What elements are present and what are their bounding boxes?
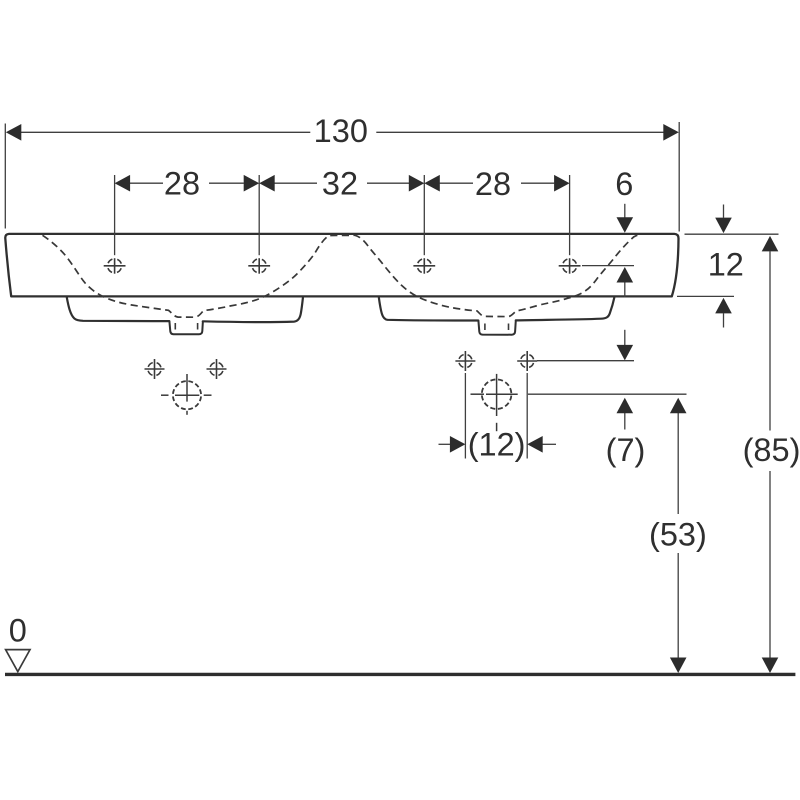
svg-text:0: 0 [9, 612, 27, 648]
svg-text:(53): (53) [649, 517, 707, 553]
svg-text:28: 28 [164, 165, 200, 201]
svg-text:130: 130 [314, 113, 368, 149]
svg-text:(85): (85) [743, 432, 800, 468]
svg-text:6: 6 [615, 166, 633, 202]
svg-text:(7): (7) [606, 432, 646, 468]
svg-text:32: 32 [322, 165, 358, 201]
svg-text:28: 28 [475, 166, 511, 202]
svg-text:12: 12 [708, 246, 744, 282]
svg-text:(12): (12) [468, 426, 526, 462]
